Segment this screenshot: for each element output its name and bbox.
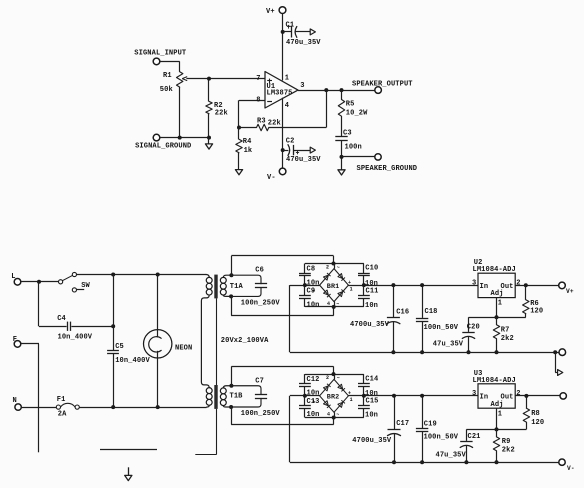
svg-text:100n_50V: 100n_50V [424,433,459,441]
svg-text:10n: 10n [365,302,378,310]
svg-text:T1A: T1A [230,283,244,291]
svg-text:F: F [13,336,17,344]
svg-text:100n_250V: 100n_250V [241,299,281,307]
svg-text:LM1084-ADJ: LM1084-ADJ [473,266,516,274]
svg-text:V-: V- [267,174,276,182]
svg-text:20Vx2_100VA: 20Vx2_100VA [221,337,269,345]
svg-text:L: L [11,273,15,281]
svg-text:2k2: 2k2 [502,446,515,454]
svg-text:In: In [480,283,489,291]
svg-text:100n_250V: 100n_250V [241,410,281,418]
svg-text:3: 3 [472,390,476,398]
svg-text:C12: C12 [307,376,320,384]
svg-text:V+: V+ [566,288,574,295]
svg-text:C16: C16 [396,309,409,317]
svg-text:47u_35V: 47u_35V [436,451,467,459]
svg-text:10n: 10n [307,302,320,310]
svg-text:~: ~ [337,376,340,382]
svg-text:2A: 2A [58,411,67,419]
svg-text:R3: R3 [257,118,266,126]
svg-text:100n: 100n [345,144,362,152]
svg-text:50k: 50k [160,86,174,94]
svg-text:+: + [348,391,351,397]
svg-text:C8: C8 [307,266,316,274]
svg-text:C18: C18 [425,308,438,316]
svg-text:1k: 1k [244,147,253,155]
svg-text:+: + [312,399,315,405]
svg-text:N: N [13,397,17,405]
svg-text:C11: C11 [366,288,379,296]
svg-text:7: 7 [256,75,260,83]
svg-text:10n: 10n [307,390,320,398]
svg-text:+: + [312,288,315,294]
svg-text:C7: C7 [255,377,264,385]
svg-text:~: ~ [336,301,339,307]
svg-text:100n_50V: 100n_50V [424,324,459,332]
svg-text:T1B: T1B [230,393,244,401]
svg-text:2: 2 [516,390,520,398]
svg-text:~: ~ [336,412,339,418]
svg-text:4700u_35V: 4700u_35V [352,437,392,445]
svg-text:1: 1 [350,286,353,292]
svg-text:~: ~ [337,265,340,271]
svg-text:1: 1 [498,410,502,418]
svg-text:3: 3 [472,279,476,287]
svg-text:C19: C19 [424,421,437,429]
svg-text:C20: C20 [467,324,480,332]
svg-text:4700u_35V: 4700u_35V [350,321,390,329]
svg-text:10n: 10n [307,280,320,288]
svg-text:+: + [348,280,351,286]
svg-text:3: 3 [300,82,304,90]
svg-text:10n_400V: 10n_400V [58,334,93,342]
svg-text:120: 120 [531,419,544,427]
svg-text:4: 4 [327,301,330,307]
svg-text:2: 2 [326,375,329,381]
svg-text:8: 8 [256,96,260,104]
svg-text:10_2W: 10_2W [346,110,368,118]
svg-text:R9: R9 [502,438,511,446]
svg-text:C21: C21 [468,433,481,441]
svg-text:C3: C3 [343,130,352,138]
svg-text:SIGNAL_GROUND: SIGNAL_GROUND [135,142,191,150]
svg-text:R8: R8 [531,410,540,418]
svg-text:SW: SW [81,282,90,290]
svg-text:10n: 10n [307,411,320,419]
svg-text:120: 120 [530,307,543,315]
svg-text:470u_35V: 470u_35V [286,156,321,164]
svg-text:2k2: 2k2 [501,335,514,343]
svg-text:BR1: BR1 [327,283,340,291]
svg-text:C10: C10 [365,265,378,273]
svg-text:C4: C4 [57,315,66,323]
svg-text:1: 1 [498,300,502,308]
svg-text:LM1084-ADJ: LM1084-ADJ [473,377,516,385]
svg-text:22k: 22k [268,119,282,127]
svg-text:BR2: BR2 [327,394,340,402]
svg-text:C1: C1 [286,22,295,30]
svg-text:2: 2 [326,264,329,270]
svg-text:LM3875: LM3875 [267,90,293,98]
svg-text:NEON: NEON [175,344,192,352]
svg-text:Adj: Adj [491,290,504,298]
svg-text:Adj: Adj [491,401,504,409]
svg-text:4: 4 [327,412,330,418]
svg-text:In: In [480,394,489,402]
svg-text:10n_400V: 10n_400V [115,357,150,365]
svg-text:22k: 22k [215,109,229,117]
svg-text:R5: R5 [346,101,355,109]
svg-text:V-: V- [567,465,575,472]
svg-text:1: 1 [285,75,289,83]
svg-text:R1: R1 [163,72,172,80]
svg-text:R7: R7 [501,326,510,334]
svg-text:47u_35V: 47u_35V [433,340,464,348]
svg-text:1: 1 [350,397,353,403]
svg-text:470u_35V: 470u_35V [286,39,321,47]
svg-text:4: 4 [285,102,290,110]
svg-text:2: 2 [516,279,520,287]
svg-text:R4: R4 [243,138,252,146]
svg-text:C2: C2 [286,138,295,146]
svg-text:C17: C17 [396,420,409,428]
svg-text:C15: C15 [366,398,379,406]
svg-text:F1: F1 [57,396,66,404]
svg-text:10n: 10n [365,412,378,420]
svg-text:C14: C14 [365,376,379,384]
svg-text:SIGNAL_INPUT: SIGNAL_INPUT [134,50,187,58]
svg-text:SPEAKER_GROUND: SPEAKER_GROUND [357,165,418,173]
svg-text:SPEAKER_OUTPUT: SPEAKER_OUTPUT [352,81,413,89]
svg-text:C5: C5 [115,343,124,351]
svg-text:C6: C6 [255,267,264,275]
svg-text:V+: V+ [266,8,275,16]
